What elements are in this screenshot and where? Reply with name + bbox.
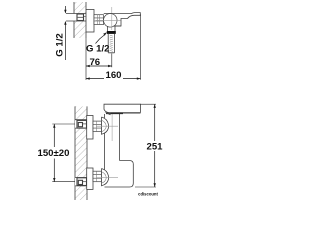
leader line to outlet thread xyxy=(96,35,105,44)
wall hatch (side view) xyxy=(75,106,87,200)
lever underside thick edge xyxy=(106,112,123,114)
threaded nipple G1/2 (top view) xyxy=(108,34,114,53)
dimension arrow up (G1/2 bottom) xyxy=(64,21,66,25)
top square union in wall (side view) xyxy=(77,120,87,128)
leader arrowhead xyxy=(103,32,107,35)
outlet nut black band (top view) xyxy=(107,31,116,34)
bottom square union in wall (side view) xyxy=(77,178,87,186)
shower outlet collar (top view) xyxy=(108,26,122,31)
dimension line 150±20 xyxy=(53,124,55,182)
bottom boss centerline xyxy=(96,177,118,179)
top stem nut (side view) xyxy=(93,121,102,132)
wall face lines (side view) xyxy=(75,106,87,200)
svg-text:cdiscount: cdiscount xyxy=(138,192,158,197)
svg-text:150±20: 150±20 xyxy=(38,148,70,159)
extension line 150 top xyxy=(52,123,75,125)
extension line from wall face down (top view dims) xyxy=(85,38,87,80)
top inlet boss (side view) xyxy=(102,117,109,134)
extension line 251 bottom xyxy=(135,186,156,188)
svg-text:251: 251 xyxy=(146,142,163,153)
body column left edge (side view) xyxy=(104,114,106,171)
lever bar (side view) xyxy=(104,104,141,112)
top boss centerline xyxy=(96,125,118,127)
lever pivot wedge xyxy=(105,113,111,116)
bottom escutcheon (side view) xyxy=(87,168,93,189)
top supply pipe (side view) xyxy=(75,120,87,128)
dimension arrow down (G1/2 top) xyxy=(64,10,66,14)
centerline cross of dome (top view) xyxy=(96,19,121,21)
svg-text:G 1/2: G 1/2 xyxy=(86,43,109,54)
stem connection nut (top view) xyxy=(94,15,104,25)
svg-text:76: 76 xyxy=(89,57,100,68)
dimension line 251 xyxy=(154,104,156,187)
dimension line 160 xyxy=(86,78,141,80)
top escutcheon (side view) xyxy=(87,116,93,140)
foot of body (side view) xyxy=(105,161,134,188)
extension line 150 bottom xyxy=(52,181,75,183)
column centerline (side view) xyxy=(111,114,113,142)
body column right edge (side view) xyxy=(119,113,121,160)
svg-text:160: 160 xyxy=(105,70,121,81)
dimension line 76 xyxy=(86,65,112,67)
supply pipe through wall (top view) xyxy=(66,14,86,22)
bottom supply pipe (side view) xyxy=(75,178,87,186)
extension line from lever tip (top view) xyxy=(140,15,142,80)
lever handle outline (top view) xyxy=(104,13,141,26)
wall hatch (top view) xyxy=(74,2,86,38)
escutcheon rosette (top view) xyxy=(86,10,94,33)
wall face lines (top view) xyxy=(74,2,86,38)
G 1/2 pipe dimension line (top view) xyxy=(64,6,66,60)
extension line from nipple center xyxy=(111,54,113,68)
bottom stem nut (side view) xyxy=(93,171,102,182)
extension line 251 top xyxy=(141,103,157,105)
square union nut in wall (top view) xyxy=(77,14,84,21)
svg-text:G 1/2: G 1/2 xyxy=(54,33,65,56)
bottom inlet boss (side view) xyxy=(102,169,109,186)
cartridge dome circle (top view) xyxy=(104,14,118,28)
thread texture xyxy=(110,35,113,51)
